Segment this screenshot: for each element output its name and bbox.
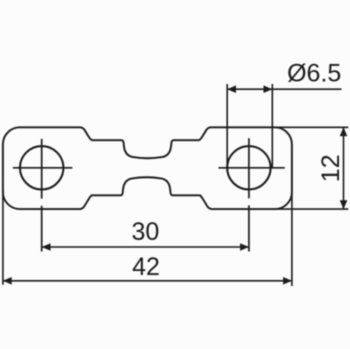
- svg-text:Ø6.5: Ø6.5: [287, 60, 341, 88]
- svg-text:12: 12: [317, 154, 345, 182]
- svg-text:42: 42: [132, 253, 160, 281]
- svg-text:30: 30: [131, 218, 159, 246]
